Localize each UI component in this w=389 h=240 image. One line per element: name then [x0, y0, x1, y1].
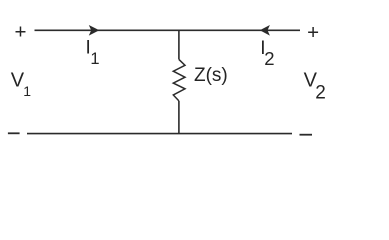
- current arrow I2: [260, 25, 270, 36]
- current arrow I1: [89, 25, 100, 36]
- wire shunt top lead: [178, 30, 180, 59]
- svg-text:1: 1: [23, 83, 31, 99]
- svg-text:2: 2: [264, 48, 274, 69]
- svg-text:+: +: [307, 21, 319, 44]
- port2 minus polarity: [300, 134, 313, 136]
- svg-text:1: 1: [90, 50, 99, 68]
- wire bottom conductor: [27, 133, 292, 135]
- wire top conductor: [35, 29, 301, 31]
- svg-text:Z(s): Z(s): [194, 65, 228, 86]
- port1 minus polarity: [8, 132, 20, 134]
- impedance Z1 zigzag: [173, 59, 185, 101]
- svg-text:+: +: [15, 20, 27, 43]
- wire shunt bottom lead: [178, 101, 180, 134]
- svg-text:2: 2: [315, 83, 326, 104]
